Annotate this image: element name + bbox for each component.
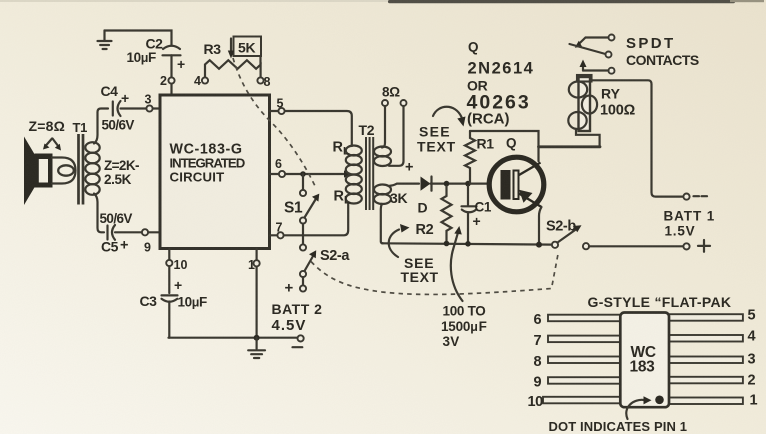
junction emitter on rail [536,242,542,248]
wire T1 top to C4 [94,109,108,144]
tap arrowhead [344,170,353,177]
resistor R2 [442,186,452,241]
transistor collector lead [519,163,541,176]
wire 3K winding top to diode [389,184,420,186]
wire junction to S1 contact [302,174,304,190]
junction at ground [254,335,260,341]
switch S1 [300,190,306,196]
wire C2 to pin 2 [170,55,172,94]
ground (bottom) [248,338,265,358]
wire C3 to bottom rail [168,302,170,338]
flat-pak lead pin 2 [669,377,743,384]
switch S2-b [552,242,558,248]
relay actuator arrow [582,66,584,71]
SPDT pole wire and arrow [579,38,609,45]
T1 secondary winding [85,142,99,195]
node pin 1 [254,260,260,266]
pin 1 dot indicator [655,396,664,405]
leader arrow from value label to C1 [451,232,463,302]
junction R1/C1 [465,181,471,187]
arrow SEE TEXT to R1 [433,107,462,117]
transformer T2 primary winding RL upper [346,146,362,175]
scan edge line top-right (dark) [388,0,735,3]
node pin 3 [146,105,152,111]
diode D [421,177,431,191]
wire common contact [583,69,609,71]
flat-pak lead pin 4 [669,335,743,342]
wire 3K winding bottom to rail [381,204,383,244]
wire emitter to rail [539,207,542,245]
capacitor C2 [163,46,180,49]
junction R2 bottom on rail [444,241,450,247]
wire pin 5 to T2 primary top [270,111,352,146]
wire R1 top to collector node [470,131,539,161]
transformer T2 core [365,137,367,210]
ground (top left) [98,31,112,50]
wire diode to transistor base [431,183,491,185]
junction S1 on pin-6 wire [300,171,306,177]
wire ground to C2 top [105,31,172,46]
transistor Q1 body circle [489,157,544,212]
node pin 10 [166,260,172,266]
wire S1 to S2-a contact (crosses pin7 wire) [302,224,304,245]
battery BATT2 plus terminal [300,285,306,291]
op-amp U1 WC-183-G integrated circuit [160,95,270,249]
T2 secondary upper winding [374,147,391,167]
relay RY core [579,77,591,131]
arrow SEE TEXT to R2 [389,230,399,258]
node pin 7 [277,232,283,238]
resistor R3 (5K pot) [205,60,261,80]
relay RY mounting bracket [576,130,600,147]
arrow to pin-1 dot [626,400,644,419]
SPDT blade [570,44,606,54]
switch S2-a [300,244,306,250]
battery BATT1 plus terminal [683,243,689,249]
T2 secondary lower winding (3K) [374,185,391,205]
relay armature cap [577,75,592,82]
speaker voice coil [52,158,76,184]
mechanical linkage R3 to S1 (dashed) [233,58,317,189]
wire relay to BATT1 minus [590,80,683,196]
node pin 6 [279,171,285,177]
node pin 5 [278,108,284,114]
capacitor C1 [467,186,469,206]
bottom rail wire [382,243,552,244]
node pin 9 [142,229,148,235]
relay RY coil [568,82,597,130]
battery BATT1 minus terminal [683,194,689,200]
wire C4 to pin 3 [121,107,160,109]
flat-pak lead pin 3 [669,357,743,364]
node pin 4 [202,77,208,83]
paper texture noise [0,0,1,1]
flat-pak lead pin 8 [548,357,621,364]
wire pin 1 down [256,249,258,338]
junction R2 top [444,181,450,187]
wire collector node to relay bracket [539,145,601,148]
resistor R1 [465,131,475,184]
battery BATT2 minus terminal [298,335,304,341]
SPDT contacts [609,35,615,41]
wire bottom rail to BATT2 minus [169,337,298,339]
wire C5 to pin 9 [115,231,160,233]
flat-pak body WC 183 [620,313,669,408]
capacitor C4 [112,102,114,116]
R3 wiper arrow [230,39,232,52]
scan edge line top-left (faint) [0,0,400,2]
flat-pak lead pin 7 [548,336,621,343]
flat-pak lead pin 9 [548,377,621,384]
value box 5K [234,37,262,57]
junction C1 bottom on rail [465,241,471,247]
node pin 8 [257,77,263,83]
flat-pak lead pin 5 [669,314,743,321]
wire S2-a to BATT2 plus [302,277,304,285]
speaker LS1 [24,137,37,206]
8 ohm output terminals [382,100,388,106]
node pin 2 [168,77,174,83]
transformer T1 core [77,134,80,205]
wire S2-b to BATT1 plus [589,245,683,247]
transistor emitter lead with arrow [519,194,542,208]
wire pin 10 down to C3 [168,249,170,293]
wire 8ohm right terminal to winding bottom [389,106,404,166]
wire 5K box to pin 8 lead [259,56,261,64]
flat-pak lead pin 6 [548,315,621,322]
flat-pak lead pin 1 [669,398,743,405]
transistor base bar [501,170,511,200]
mechanical linkage S2-a to S2-b (dashed) [311,252,559,295]
wire pin 6 to T2 primary tap [270,173,347,175]
capacitor C5 [106,226,108,240]
wire pin 7 to T2 primary bottom [270,204,349,235]
transformer T2 primary winding RL lower [346,175,362,204]
flat-pak lead pin 10 [543,397,621,404]
wire T1 bottom to C5 [94,194,104,233]
wire 8ohm left terminal to T2 secondary top [382,106,385,148]
